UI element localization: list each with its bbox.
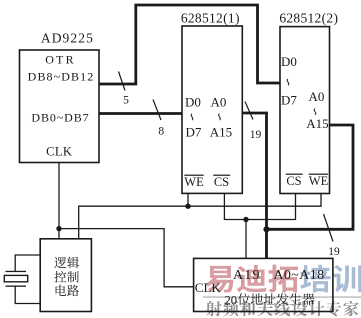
crystal X1 body [4,275,27,281]
svg-text:A15: A15 [306,116,328,131]
svg-text:628512(2): 628512(2) [279,10,338,25]
SRAM U2 628512(2) box [280,27,330,194]
svg-text:CS: CS [286,174,301,188]
logic box text line3 电路 [56,285,79,297]
svg-text:19: 19 [250,129,262,141]
wire WE net horizontal and drops [79,194,321,239]
bus width slash 19 (upper) [245,102,253,120]
crystal X1 top lead wire [15,255,40,271]
wire WE net U1 pin drop [187,193,189,206]
address bus branch to U2 A0~A15 [267,125,354,229]
svg-text:A0: A0 [309,89,325,104]
svg-text:5: 5 [123,94,129,106]
svg-text:WE: WE [184,175,204,189]
junction dot WE net [185,204,190,209]
bus width slash 5 [119,72,126,91]
logic control circuit box 逻辑控制电路 [40,239,91,312]
svg-text:A19: A19 [233,268,261,283]
bus DB0~DB7 (8 bits) to U1 data [99,112,182,115]
svg-text:D7: D7 [186,125,202,140]
junction dot address bus [263,226,269,232]
svg-text:20: 20 [225,294,238,308]
ADC block AD9225 [20,50,100,163]
crystal X1 bottom plate [6,286,27,287]
svg-text:628512(1): 628512(1) [181,10,240,25]
svg-text:CLK: CLK [46,145,72,159]
svg-text:D0: D0 [185,95,201,110]
U2 squiggle A0-A15 [314,109,316,115]
svg-text:CLK: CLK [195,280,222,295]
svg-text:8: 8 [158,126,164,138]
svg-text:D0: D0 [281,54,297,69]
svg-text:19: 19 [328,246,340,258]
watermark blue text 培训 [300,265,361,293]
svg-text:WE: WE [309,174,329,188]
watermark red text 易迪拓 [205,265,298,293]
SRAM U1 628512(1) box [182,26,242,193]
bus width slash 8 [153,100,161,121]
U2 squiggle D0-D7 [287,79,289,85]
svg-text:A0~A18: A0~A18 [273,268,324,283]
logic box text line2 控制 [54,271,78,283]
U1 squiggle D0-D7 [191,114,193,120]
addr gen caption 20位地址发生器 [225,293,315,307]
junction dot CS net [243,217,248,222]
svg-text:D7: D7 [281,93,297,108]
bus width slash 19 (lower) [324,214,334,242]
svg-text:A0: A0 [211,95,227,110]
svg-text:AD9225: AD9225 [41,31,94,46]
svg-text:DB8~DB12: DB8~DB12 [28,70,95,84]
crystal X1 bottom lead wire [15,286,40,303]
svg-text:A15: A15 [210,125,232,140]
watermark gray divider line [203,296,361,298]
address generator box 20位地址发生器 [194,258,333,311]
wire ADC CLK to logic box [58,163,60,239]
wire CLK node to address generator CLK [59,229,194,287]
wire CS net to A19 output [245,220,247,259]
svg-text:CS: CS [214,175,229,189]
bus DB8~DB12 (5 bits) to U2 data [99,5,280,84]
U1 squiggle A0-A15 [219,114,221,120]
address bus U1 to generator (19 bits) [242,113,266,258]
watermark gray slogan 射频和天线设计专家 [206,301,359,317]
svg-text:OTR: OTR [45,53,76,67]
logic box text line1 逻辑 [54,257,79,269]
svg-text:DB0~DB7: DB0~DB7 [31,111,89,125]
crystal X1 top plate [6,271,27,272]
junction dot CLK node [56,226,61,231]
wire CS net U1 to U2 [224,193,295,219]
